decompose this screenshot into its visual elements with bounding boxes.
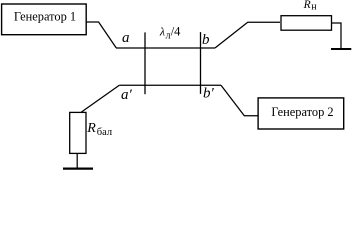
svg-text:Генератор 1: Генератор 1 bbox=[14, 10, 76, 24]
svg-text:бал: бал bbox=[97, 127, 112, 138]
svg-text:R: R bbox=[303, 0, 311, 11]
generator box G1 "Генератор 1" bbox=[2, 4, 87, 35]
svg-text:R: R bbox=[86, 121, 96, 136]
svg-text:b: b bbox=[202, 32, 210, 48]
svg-text:/4: /4 bbox=[171, 25, 181, 39]
wire from b to Rn bbox=[215, 22, 280, 48]
svg-text:b′: b′ bbox=[203, 86, 215, 102]
svg-text:н: н bbox=[311, 2, 317, 13]
resistor Rn bbox=[281, 16, 332, 31]
svg-text:a′: a′ bbox=[121, 87, 133, 103]
resistor Rbal bbox=[70, 112, 86, 153]
wire from a' to Rbal bbox=[81, 85, 119, 112]
svg-text:Генератор 2: Генератор 2 bbox=[271, 105, 333, 119]
ground (bottom, under Rbal) bbox=[63, 168, 93, 170]
stub bar at node a/a' bbox=[144, 32, 146, 94]
wire from G1 to node a (top line) bbox=[86, 22, 116, 48]
wire bottom horizontal line a'-b' bbox=[119, 84, 221, 86]
svg-text:λ: λ bbox=[159, 25, 165, 39]
svg-text:a: a bbox=[122, 30, 130, 46]
wire top horizontal line a-b bbox=[116, 47, 215, 49]
wire from Rbal to ground bbox=[76, 153, 78, 168]
generator box G2 "Генератор 2" bbox=[258, 98, 344, 129]
stub bar at node b/b' bbox=[200, 32, 202, 94]
wire from b' to G2 bbox=[221, 85, 258, 115]
ground (right, under Rn) bbox=[331, 48, 351, 50]
wire from Rn to ground bbox=[332, 23, 342, 49]
